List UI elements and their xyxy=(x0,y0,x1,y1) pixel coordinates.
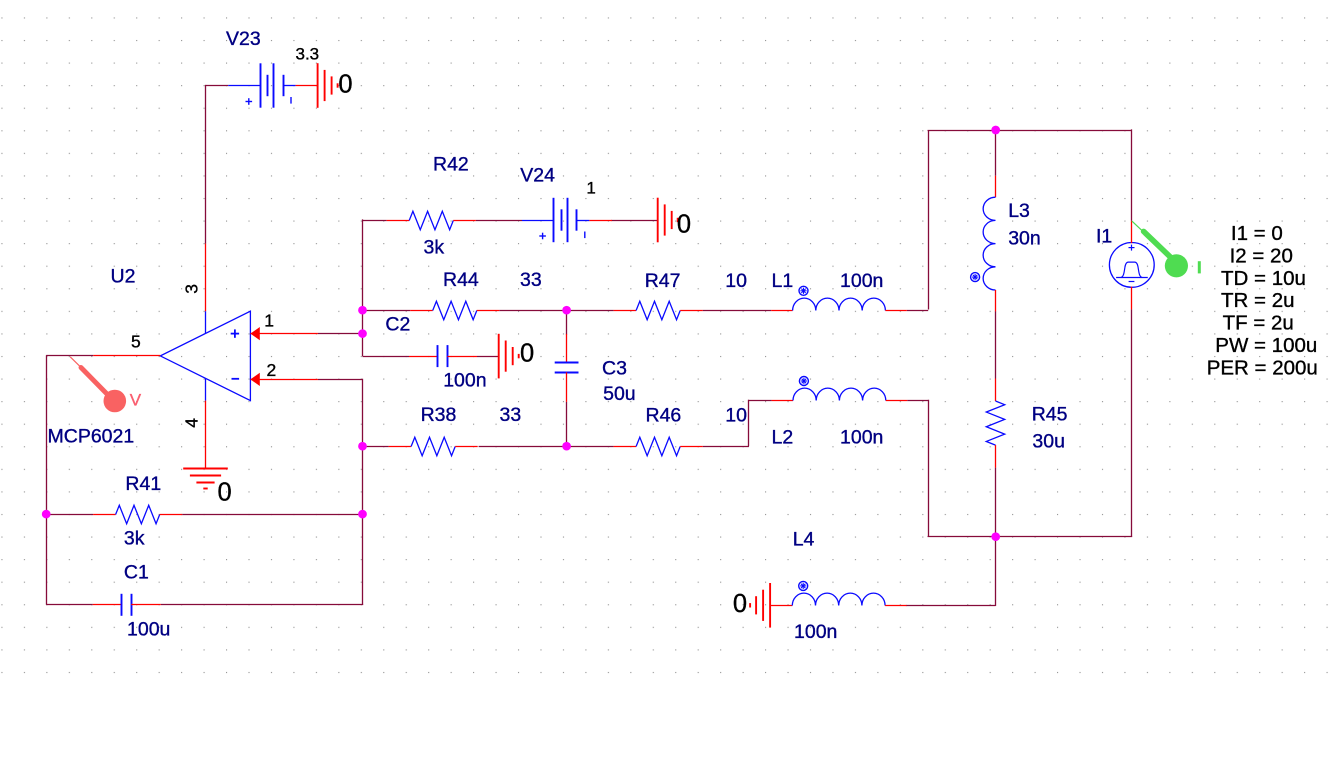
wire rail R42 row down to C2 row xyxy=(362,219,364,356)
ground (L4) xyxy=(750,583,770,628)
wire corner to L2 xyxy=(748,400,771,402)
svg-text:L4: L4 xyxy=(793,529,815,551)
svg-text:MCP6021: MCP6021 xyxy=(48,426,135,448)
wire node to R47 xyxy=(567,310,614,312)
wire R42 to V24 xyxy=(476,220,522,222)
voltage source V24 xyxy=(522,198,612,242)
capacitor C3 xyxy=(555,334,579,402)
svg-text:3: 3 xyxy=(181,284,201,294)
wire junction down to L3 xyxy=(995,130,997,176)
svg-text:V24: V24 xyxy=(520,165,555,187)
inductor L4 xyxy=(771,581,907,605)
svg-text:TF = 2u: TF = 2u xyxy=(1223,312,1294,335)
ground (C2) xyxy=(499,334,519,379)
svg-text:R44: R44 xyxy=(443,269,479,291)
svg-text:33: 33 xyxy=(520,269,542,291)
resistor R44 xyxy=(410,301,499,319)
svg-text:L3: L3 xyxy=(1008,200,1030,222)
wire top rail down to I1 xyxy=(1131,129,1133,220)
wire top rail xyxy=(928,130,1132,132)
svg-text:L2: L2 xyxy=(772,427,794,449)
svg-text:100u: 100u xyxy=(127,619,170,641)
wire V24 to ground xyxy=(611,220,658,222)
svg-text:R38: R38 xyxy=(421,404,457,426)
junction rail/pin1 row xyxy=(358,329,367,338)
svg-text:50u: 50u xyxy=(603,383,636,405)
wire C2 to ground xyxy=(477,356,499,358)
resistor R46 xyxy=(614,437,703,455)
wire C1 to rail corner xyxy=(161,604,363,606)
wire corner down to R46 row xyxy=(748,400,750,446)
junction left rail/R41 xyxy=(42,510,51,519)
wire node to R46 xyxy=(567,446,614,448)
ground (V23) xyxy=(318,63,338,108)
current source I1 xyxy=(1109,221,1154,310)
junction rail/R44 row xyxy=(358,306,367,315)
wire I1 to bottom rail xyxy=(1131,309,1133,536)
junction rail/R41 xyxy=(358,510,367,519)
wire L4 to corner xyxy=(906,605,996,607)
resistor R45 xyxy=(986,379,1004,468)
ground (U2 pin 4) xyxy=(183,469,228,489)
svg-text:I2 = 20: I2 = 20 xyxy=(1230,244,1293,267)
wire rail down to C1 row xyxy=(362,379,364,605)
svg-text:TR = 2u: TR = 2u xyxy=(1221,289,1295,312)
wire R45 to bottom rail xyxy=(995,468,997,538)
resistor R38 xyxy=(389,437,478,455)
svg-text:3k: 3k xyxy=(124,528,145,550)
I1 parameter text xyxy=(1207,222,1318,379)
wire node down to C3 xyxy=(566,310,568,335)
resistor R42 xyxy=(387,211,476,229)
svg-text:0: 0 xyxy=(338,71,352,99)
wire C3 to node xyxy=(566,402,568,446)
wire left rail down xyxy=(46,355,48,605)
current probe I xyxy=(1132,221,1201,277)
svg-text:4: 4 xyxy=(182,418,202,428)
svg-text:C1: C1 xyxy=(124,561,149,583)
wire R44 to node xyxy=(499,310,566,312)
inductor L1 xyxy=(771,286,907,310)
inductor L3 xyxy=(971,176,996,312)
svg-text:0: 0 xyxy=(677,211,691,239)
svg-text:PER = 200u: PER = 200u xyxy=(1207,356,1318,379)
resistor R41 xyxy=(93,505,182,523)
ground (V24) xyxy=(658,198,678,243)
wire corner up xyxy=(928,130,930,310)
junction bottom rail/R45/L4 xyxy=(991,532,1000,541)
svg-text:0: 0 xyxy=(733,590,747,618)
svg-text:R46: R46 xyxy=(646,405,682,427)
svg-text:I1: I1 xyxy=(1096,226,1112,248)
svg-text:10: 10 xyxy=(725,270,747,292)
svg-text:30n: 30n xyxy=(1008,228,1041,250)
wire L2 to corner xyxy=(907,400,928,402)
svg-text:PW = 100u: PW = 100u xyxy=(1215,334,1317,357)
junction rail/R38 row xyxy=(358,442,367,451)
svg-text:30u: 30u xyxy=(1032,431,1065,453)
svg-text:2: 2 xyxy=(267,360,277,380)
wire corner down to bottom rail xyxy=(928,400,930,537)
voltage probe V xyxy=(70,357,126,413)
wire bottom rail xyxy=(928,536,1133,538)
svg-text:100n: 100n xyxy=(840,427,883,449)
wire L3 to R45 xyxy=(995,311,997,378)
wire corner down to U2 pin 3 xyxy=(205,85,207,244)
svg-text:TD = 10u: TD = 10u xyxy=(1221,267,1306,290)
wire R46 to corner xyxy=(703,446,749,448)
voltage source V23 xyxy=(228,63,318,107)
svg-text:R45: R45 xyxy=(1032,404,1068,426)
junction C3 top xyxy=(562,306,571,315)
junction C3 bottom xyxy=(562,442,571,451)
wire corner up to bottom rail xyxy=(995,537,997,606)
wire corner to C1 xyxy=(46,604,93,606)
inductor L2 xyxy=(772,377,908,401)
svg-text:R47: R47 xyxy=(645,270,681,292)
wire V23 to corner xyxy=(206,85,229,87)
wire left rail to R41 xyxy=(46,514,93,516)
svg-text:0: 0 xyxy=(218,479,232,507)
svg-text:100n: 100n xyxy=(794,621,837,643)
svg-text:3.3: 3.3 xyxy=(296,45,320,64)
svg-text:0: 0 xyxy=(520,340,534,368)
svg-text:10: 10 xyxy=(725,405,747,427)
svg-text:V23: V23 xyxy=(226,28,261,50)
wire rail to R38 xyxy=(363,446,389,448)
svg-text:100n: 100n xyxy=(443,369,486,391)
wire rail to R44 xyxy=(363,310,411,312)
svg-text:L1: L1 xyxy=(772,270,794,292)
wire corner to U2 output xyxy=(46,355,93,357)
svg-text:1: 1 xyxy=(264,311,274,331)
wire U2 pin 2 to rail xyxy=(318,379,363,381)
op-amp U2 xyxy=(93,244,318,468)
wire L1 to corner xyxy=(907,310,928,312)
svg-text:R42: R42 xyxy=(433,154,469,176)
wire R38 to node xyxy=(479,446,567,448)
svg-text:C2: C2 xyxy=(385,314,410,336)
svg-text:I1 = 0: I1 = 0 xyxy=(1231,222,1283,245)
wire R41 to rail xyxy=(182,514,362,516)
junction top rail/L3 xyxy=(991,126,1000,135)
svg-text:33: 33 xyxy=(500,404,522,426)
wire R47 to L1 xyxy=(703,310,772,312)
svg-text:U2: U2 xyxy=(111,266,136,288)
svg-text:1: 1 xyxy=(586,179,595,198)
svg-text:100n: 100n xyxy=(840,270,883,292)
svg-text:R41: R41 xyxy=(125,473,161,495)
svg-text:5: 5 xyxy=(131,332,141,352)
svg-text:3k: 3k xyxy=(424,237,445,259)
svg-text:C3: C3 xyxy=(602,358,627,380)
wire rail to R42 xyxy=(363,220,387,222)
wire U2 pin 1 to rail xyxy=(318,333,363,335)
wire corner to C2 xyxy=(363,356,410,358)
svg-text:V: V xyxy=(130,391,142,410)
capacitor C1 xyxy=(93,594,161,616)
resistor R47 xyxy=(614,301,703,319)
capacitor C2 xyxy=(409,345,477,367)
